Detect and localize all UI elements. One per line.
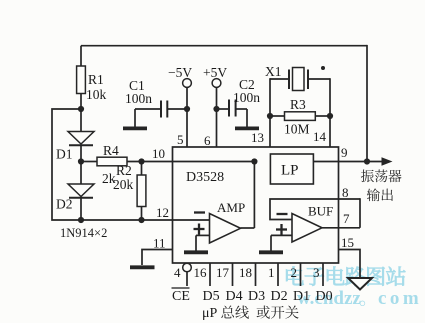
supply -5V terminal xyxy=(183,79,192,88)
wire pin 9 output xyxy=(339,161,389,163)
svg-text:4: 4 xyxy=(174,265,181,280)
svg-text:6: 6 xyxy=(204,133,211,148)
op-amp AMP xyxy=(210,214,241,244)
svg-text:R1: R1 xyxy=(88,72,104,87)
svg-text:D3: D3 xyxy=(248,289,265,304)
wire BUF noninv input xyxy=(271,234,292,236)
svg-text:100n: 100n xyxy=(233,90,260,105)
BUF plus sign xyxy=(276,228,287,230)
label output(2) xyxy=(382,189,393,201)
svg-text:100n: 100n xyxy=(125,91,152,106)
svg-text:1N914×2: 1N914×2 xyxy=(60,226,107,240)
svg-text:20k: 20k xyxy=(113,177,134,192)
svg-text:R4: R4 xyxy=(103,143,119,158)
label oscillator xyxy=(361,170,374,183)
diode D1 xyxy=(80,109,82,132)
svg-text:LP: LP xyxy=(281,163,299,179)
IC U1 D3528 box xyxy=(173,147,339,263)
node C2/+5V xyxy=(213,106,219,112)
svg-text:μP: μP xyxy=(202,306,218,321)
ground BUF noninv xyxy=(270,235,272,251)
svg-text:16: 16 xyxy=(194,265,208,280)
pin 1 stub / D2 xyxy=(277,263,279,286)
svg-text:R2: R2 xyxy=(116,163,132,178)
svg-text:D4: D4 xyxy=(226,289,243,304)
svg-text:12: 12 xyxy=(156,205,169,220)
svg-text:10k: 10k xyxy=(86,87,107,102)
svg-text:D1: D1 xyxy=(293,289,310,304)
wire AMP noninv input xyxy=(196,234,210,236)
resistor R2 xyxy=(141,162,143,176)
wire feedback vertical xyxy=(253,162,255,229)
wire BUF inv input / pin 8 feedback xyxy=(270,199,360,220)
svg-text:15: 15 xyxy=(341,235,354,250)
svg-text:5: 5 xyxy=(177,132,184,147)
wire pin8-pin7 bracket xyxy=(359,198,361,228)
capacitor C2 xyxy=(217,108,230,110)
svg-text:D2: D2 xyxy=(56,197,73,212)
diode D2 xyxy=(80,162,82,185)
BUF minus sign xyxy=(277,213,288,215)
wire top rail drop to output node xyxy=(366,45,368,162)
svg-text:18: 18 xyxy=(239,265,252,280)
block LP xyxy=(270,154,313,184)
svg-text:AMP: AMP xyxy=(217,200,245,215)
wire pin 14 column xyxy=(329,78,331,147)
wire LP to pin 9 xyxy=(313,161,338,163)
svg-text:D2: D2 xyxy=(271,289,288,304)
svg-text:+5V: +5V xyxy=(203,65,227,80)
watermark cndzz xyxy=(286,266,304,285)
node output junction xyxy=(364,158,370,164)
svg-text:17: 17 xyxy=(216,265,230,280)
svg-text:D5: D5 xyxy=(203,289,220,304)
svg-text:D1: D1 xyxy=(56,147,73,162)
op-amp BUF xyxy=(292,214,322,243)
wire pin 13 column xyxy=(269,78,271,147)
svg-text:R3: R3 xyxy=(290,97,306,112)
pin 4 bubble CE xyxy=(183,263,192,272)
svg-text:X1: X1 xyxy=(265,64,282,79)
wire pin 5 from -5V xyxy=(186,87,188,147)
svg-text:7: 7 xyxy=(343,211,350,226)
svg-text:CE: CE xyxy=(172,289,190,304)
svg-text:com: com xyxy=(378,288,422,309)
node R2 bottom / pin12 wire xyxy=(138,217,144,223)
pin 2 stub / D1 xyxy=(300,263,302,286)
svg-text:10: 10 xyxy=(152,146,165,161)
node D1-D2 / R4 xyxy=(78,158,84,164)
node C1/-5V xyxy=(184,106,190,112)
svg-text:BUF: BUF xyxy=(308,204,333,219)
svg-text:D3528: D3528 xyxy=(186,170,224,185)
wire top rail xyxy=(81,45,367,47)
svg-text:14: 14 xyxy=(313,129,327,144)
svg-text:3: 3 xyxy=(313,265,320,280)
node R1 bottom / D1 anode xyxy=(78,106,84,112)
AMP minus sign xyxy=(194,211,205,213)
svg-text:10M: 10M xyxy=(284,122,310,137)
ground C2 xyxy=(246,109,248,127)
capacitor C1 xyxy=(135,108,161,110)
pin 16 stub / D5 xyxy=(209,263,211,286)
wire pin 12 row to AMP inv input xyxy=(81,219,210,221)
dot near X1 xyxy=(321,66,325,70)
wire AMP output xyxy=(241,227,255,229)
resistor R4 xyxy=(81,161,97,163)
wire left loop xyxy=(52,109,81,220)
node feedback / LP input xyxy=(251,158,257,164)
resistor R1 xyxy=(80,46,82,66)
svg-text:9: 9 xyxy=(341,145,348,160)
ground AMP noninv xyxy=(195,235,197,251)
wire pin 15 xyxy=(339,250,361,279)
pin 17 stub / D4 xyxy=(232,263,234,286)
svg-text:1: 1 xyxy=(268,265,275,280)
node X1 right / R3 right xyxy=(327,113,333,119)
node R4/R2/pin10 xyxy=(138,158,144,164)
node X1 left / R3 left xyxy=(267,113,273,119)
svg-text:2: 2 xyxy=(291,265,298,280)
supply +5V terminal xyxy=(212,79,221,88)
ground C1 xyxy=(134,109,136,127)
ground arrow pin 15 xyxy=(348,278,372,290)
node D2 cathode / bottom wire xyxy=(78,217,84,223)
svg-text:D0: D0 xyxy=(316,289,333,304)
AMP plus sign xyxy=(194,228,205,230)
wire pin 6 from +5V xyxy=(216,87,218,147)
svg-text:13: 13 xyxy=(251,130,264,145)
wire BUF output / pin 7 xyxy=(322,227,360,229)
pin 18 stub / D3 xyxy=(255,263,257,286)
svg-text:8: 8 xyxy=(342,185,349,200)
ground pin 11 xyxy=(130,265,155,269)
pin 3 stub / D0 xyxy=(322,263,324,286)
svg-text:−5V: −5V xyxy=(168,65,192,80)
svg-text:11: 11 xyxy=(153,236,166,251)
arrowhead output xyxy=(382,157,393,166)
wire pin 11 xyxy=(142,250,173,266)
